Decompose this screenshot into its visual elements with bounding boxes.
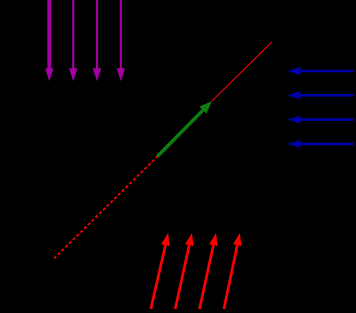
blue left arrow B3 <box>288 115 354 123</box>
magenta down arrow M1 <box>45 0 53 81</box>
red up arrow R4 <box>224 233 242 309</box>
blue left arrow B1 <box>288 67 354 75</box>
blue left arrow B4 <box>288 140 354 148</box>
magenta down arrow M4 <box>117 0 125 81</box>
red up arrow R1 <box>151 233 170 309</box>
blue left arrow B2 <box>288 91 354 99</box>
dashed red line lower segment <box>54 154 160 259</box>
magenta down arrow M3 <box>93 0 101 81</box>
green arrow along diagonal <box>157 101 212 156</box>
magenta down arrow M2 <box>69 0 77 81</box>
thin red line upper segment <box>212 42 272 101</box>
red up arrow R3 <box>200 233 218 309</box>
red up arrow R2 <box>175 233 193 309</box>
